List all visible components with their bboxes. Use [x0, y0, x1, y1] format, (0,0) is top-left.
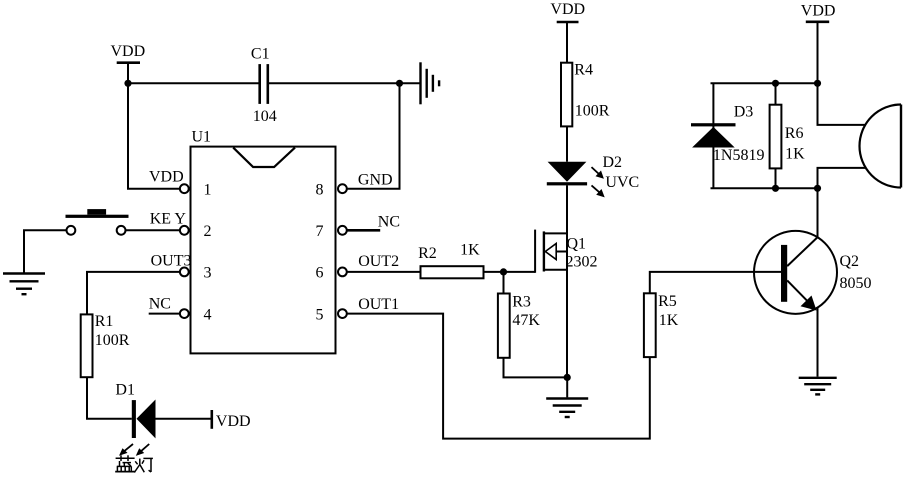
wire node D to ground [566, 377, 568, 397]
svg-text:KE Y: KE Y [150, 211, 187, 228]
resistor R5 [644, 293, 679, 357]
svg-text:D2: D2 [603, 154, 623, 171]
svg-text:6: 6 [316, 265, 324, 282]
svg-text:3: 3 [204, 265, 212, 282]
capacitor C1 [251, 45, 277, 124]
svg-text:VDD: VDD [111, 43, 146, 60]
wire top rail [711, 82, 818, 84]
wire D1 to VDD2 [156, 418, 212, 420]
svg-text:R6: R6 [785, 125, 804, 142]
node H (bottom rail right) [814, 185, 821, 192]
resistor R4 [561, 61, 610, 126]
node G (R6 bottom) [772, 185, 779, 192]
wire speaker bottom lead [818, 168, 866, 188]
LED D1 [115, 381, 155, 456]
svg-text:104: 104 [253, 108, 277, 125]
wire D2 to Q1 drain and source to node D [566, 185, 568, 377]
svg-text:VDD: VDD [216, 413, 251, 430]
wire C1 to ground node [268, 82, 421, 84]
transistor Q2 [754, 231, 872, 314]
pin 5 [338, 309, 347, 318]
svg-text:R4: R4 [574, 61, 593, 78]
wire node C to R3 [503, 272, 505, 294]
node C (R3 tap) [500, 268, 507, 275]
svg-text:R2: R2 [418, 245, 437, 262]
svg-text:VDD: VDD [550, 1, 585, 18]
node B (GND junction top) [396, 80, 403, 87]
svg-text:OUT1: OUT1 [358, 296, 399, 313]
svg-text:C1: C1 [251, 45, 270, 62]
wire R2 to Q1 gate [484, 271, 536, 273]
svg-text:4: 4 [204, 306, 212, 323]
mosfet Q1 [535, 230, 597, 273]
wire R1 to D1 [87, 377, 132, 419]
label 蓝灯 (blue lamp) [115, 455, 153, 472]
pin 6 [338, 268, 347, 277]
svg-text:VDD: VDD [801, 3, 836, 20]
svg-text:U1: U1 [192, 129, 212, 146]
ground (button) [3, 274, 45, 295]
svg-text:OUT3: OUT3 [151, 252, 192, 269]
wire R4 to D2 [566, 126, 568, 161]
svg-text:Q1: Q1 [567, 236, 587, 253]
wire bottom rail [711, 187, 818, 189]
svg-text:100R: 100R [575, 102, 610, 119]
svg-text:100R: 100R [95, 332, 130, 349]
svg-text:UVC: UVC [605, 174, 639, 191]
svg-text:8050: 8050 [840, 275, 872, 292]
wire NC stub pin 7 [347, 229, 380, 232]
wire pin 3 (OUT3) to R1 [87, 272, 180, 315]
resistor R6 [770, 83, 806, 188]
wire Q2 collector up [817, 188, 819, 237]
wire speaker top lead [818, 83, 866, 125]
svg-text:GND: GND [358, 172, 393, 189]
power VDD4 (top right) [801, 3, 836, 84]
svg-text:D1: D1 [115, 381, 135, 398]
ground (top right, rotated) [421, 62, 440, 104]
svg-text:1N5819: 1N5819 [713, 147, 765, 164]
svg-text:2: 2 [204, 223, 212, 240]
svg-text:1: 1 [204, 182, 212, 199]
svg-text:7: 7 [316, 223, 324, 240]
svg-text:OUT2: OUT2 [358, 253, 399, 270]
node F (R6 top) [772, 80, 779, 87]
svg-text:1K: 1K [460, 241, 480, 258]
wire D3 branch vertical [712, 83, 714, 188]
ground (Q2) [799, 378, 837, 395]
pin 3 [180, 268, 189, 277]
wire node A down to pin 1 [128, 83, 180, 188]
resistor R2 [418, 241, 483, 278]
wire NC stub pin 4 [149, 313, 180, 315]
wire R3 to ground node D [504, 358, 568, 378]
svg-text:47K: 47K [512, 312, 540, 329]
svg-text:D3: D3 [734, 104, 754, 121]
power VDD3 (top of R4) [550, 1, 585, 63]
pin 4 [180, 309, 189, 318]
svg-text:5: 5 [316, 306, 324, 323]
LED D2 (UVC) [547, 154, 639, 197]
svg-text:2302: 2302 [566, 254, 598, 271]
pin 2 [180, 226, 189, 235]
diode D3 [691, 104, 764, 164]
svg-text:R5: R5 [658, 293, 677, 310]
svg-text:R3: R3 [512, 293, 531, 310]
wire button to ground [24, 230, 67, 272]
power VDD1 (top-left) [111, 43, 146, 83]
wire node B down to pin 8 [347, 83, 400, 188]
svg-text:Q2: Q2 [840, 253, 860, 270]
pin 8 [338, 184, 347, 193]
ground (middle) [546, 399, 588, 418]
wire R5 to Q2 base [650, 272, 781, 293]
IC U1 [191, 129, 336, 354]
svg-text:8: 8 [316, 182, 324, 199]
svg-text:NC: NC [149, 296, 171, 313]
svg-text:1K: 1K [659, 312, 679, 329]
wire VDD1 to C1 [128, 82, 260, 84]
svg-text:VDD: VDD [149, 169, 184, 186]
wire pin 5 (OUT1) to R5 [347, 314, 650, 439]
wire Q2 emitter down to ground [817, 308, 819, 377]
power VDD2 (at D1) [212, 410, 251, 430]
pin 1 [180, 184, 189, 193]
node E (top rail right) [814, 80, 821, 87]
svg-text:R1: R1 [95, 313, 114, 330]
node A (VDD1 junction) [124, 80, 131, 87]
wire button to pin 2 [126, 229, 180, 231]
resistor R1 [81, 313, 130, 377]
pushbutton S1 (KEY) [66, 209, 129, 235]
wire pin 6 (OUT2) to R2 [347, 271, 421, 273]
buzzer LS1 [859, 105, 901, 188]
svg-text:1K: 1K [785, 145, 805, 162]
resistor R3 [498, 293, 541, 357]
pin 7 [338, 226, 347, 235]
svg-text:NC: NC [378, 213, 400, 230]
node D (source junction) [564, 374, 571, 381]
